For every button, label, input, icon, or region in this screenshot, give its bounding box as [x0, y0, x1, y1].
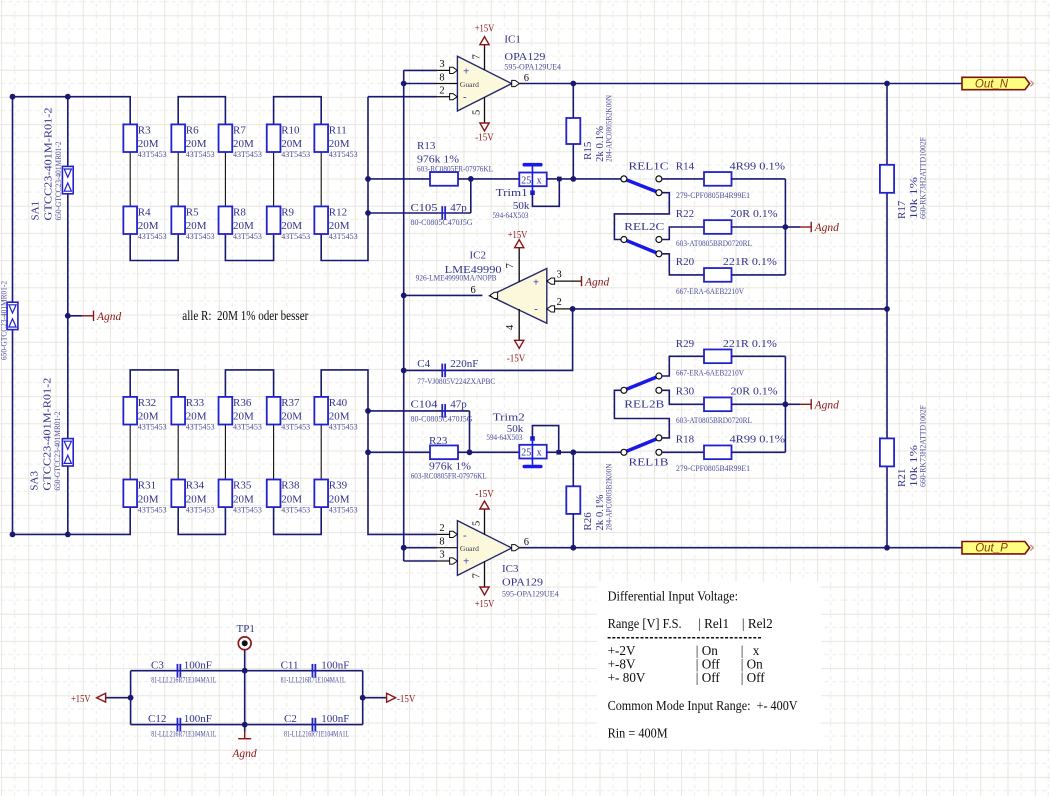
svg-text:Agnd: Agnd [814, 222, 840, 234]
svg-text:R6: R6 [186, 124, 199, 136]
svg-text:3: 3 [439, 59, 444, 70]
svg-text:Agnd: Agnd [584, 276, 610, 288]
svg-text:-: - [463, 530, 467, 542]
svg-text:603-AT0805BRD0720RL: 603-AT0805BRD0720RL [676, 239, 752, 248]
svg-text:GTCC23-401M-R01-2: GTCC23-401M-R01-2 [43, 108, 55, 221]
svg-text:+: + [533, 277, 539, 289]
svg-text:43T5453: 43T5453 [281, 505, 310, 514]
svg-text:C105: C105 [411, 202, 439, 214]
svg-text:R5: R5 [186, 206, 199, 218]
svg-text:81-LLL216R71E104MA1L: 81-LLL216R71E104MA1L [284, 730, 349, 739]
svg-text:IC3: IC3 [502, 563, 519, 575]
svg-text:R13: R13 [417, 140, 436, 152]
svg-text:20M: 20M [281, 493, 302, 505]
svg-text:603-RC0805FR-07976KL: 603-RC0805FR-07976KL [417, 165, 493, 174]
svg-text:43T5453: 43T5453 [186, 232, 215, 241]
svg-text:20M: 20M [233, 138, 254, 150]
svg-text:43T5453: 43T5453 [186, 150, 215, 159]
svg-text:R23: R23 [429, 435, 448, 447]
svg-text:C104: C104 [411, 399, 439, 411]
svg-text:81-LLL216R71E104MA1L: 81-LLL216R71E104MA1L [151, 676, 216, 685]
svg-text:R20: R20 [676, 256, 695, 268]
svg-text:595-OPA129UE4: 595-OPA129UE4 [502, 590, 559, 599]
svg-text:+15V: +15V [508, 229, 528, 241]
svg-text:C3: C3 [151, 659, 164, 671]
svg-text:25: 25 [521, 448, 531, 459]
svg-text:660-RK73H2ATTD1002F: 660-RK73H2ATTD1002F [919, 136, 928, 219]
svg-text:SA1: SA1 [30, 201, 42, 221]
svg-text:3: 3 [557, 269, 562, 280]
svg-text:GTCC23-401M-R01-2: GTCC23-401M-R01-2 [42, 378, 54, 491]
svg-text:43T5453: 43T5453 [329, 150, 358, 159]
svg-text:R4: R4 [138, 206, 151, 218]
svg-text:4R99 0.1%: 4R99 0.1% [730, 161, 786, 173]
svg-text:20R 0.1%: 20R 0.1% [731, 386, 778, 398]
svg-text:43T5453: 43T5453 [233, 232, 262, 241]
svg-text:20M: 20M [138, 493, 159, 505]
svg-text:x: x [537, 448, 542, 459]
svg-text:Agnd: Agnd [231, 748, 257, 760]
svg-text:43T5453: 43T5453 [329, 505, 358, 514]
svg-text:43T5453: 43T5453 [138, 232, 167, 241]
svg-text:R11: R11 [329, 124, 347, 136]
svg-text:REL1C: REL1C [629, 161, 669, 173]
svg-text:3: 3 [439, 550, 444, 561]
svg-text:221R 0.1%: 221R 0.1% [723, 256, 777, 268]
svg-text:R33: R33 [186, 397, 205, 409]
svg-text:Range [V] F.S.: Range [V] F.S. [608, 616, 682, 631]
svg-text:43T5453: 43T5453 [233, 150, 262, 159]
svg-text:-15V: -15V [397, 693, 416, 705]
svg-text:20M: 20M [233, 493, 254, 505]
svg-text:43T5453: 43T5453 [186, 505, 215, 514]
svg-text:594-64X503: 594-64X503 [493, 211, 529, 220]
svg-text:43T5453: 43T5453 [138, 150, 167, 159]
svg-text:20M: 20M [138, 138, 159, 150]
svg-text:43T5453: 43T5453 [186, 423, 215, 432]
svg-text:R15: R15 [582, 141, 594, 160]
svg-text:284-APC0805B2K00N: 284-APC0805B2K00N [605, 463, 614, 530]
svg-text:2: 2 [439, 86, 444, 97]
svg-text:7: 7 [505, 263, 516, 268]
svg-text:-: - [463, 91, 467, 103]
svg-text:R37: R37 [281, 397, 300, 409]
svg-text:6: 6 [524, 73, 529, 84]
svg-text:100nF: 100nF [321, 659, 349, 671]
svg-text:R14: R14 [676, 161, 695, 173]
svg-text:SA3: SA3 [29, 471, 41, 491]
svg-text:43T5453: 43T5453 [329, 423, 358, 432]
svg-text:279-CPF0805B4R99E1: 279-CPF0805B4R99E1 [676, 464, 750, 473]
svg-text:20M: 20M [186, 220, 207, 232]
svg-text:R7: R7 [233, 124, 246, 136]
svg-text:Out_N: Out_N [975, 79, 1009, 91]
svg-text:20M: 20M [281, 220, 302, 232]
svg-text:5: 5 [472, 521, 483, 526]
svg-text:6: 6 [524, 537, 529, 548]
svg-text:20M: 20M [138, 411, 159, 423]
svg-text:Agnd: Agnd [814, 400, 840, 412]
svg-text:+- 80V: +- 80V [608, 670, 646, 685]
svg-text:4R99 0.1%: 4R99 0.1% [730, 434, 786, 446]
svg-text:IC2: IC2 [470, 250, 487, 262]
svg-text:+15V: +15V [71, 693, 91, 705]
svg-text:C12: C12 [148, 713, 166, 725]
svg-text:Agnd: Agnd [96, 311, 122, 323]
svg-text:R32: R32 [138, 397, 156, 409]
svg-text:R31: R31 [138, 479, 156, 491]
svg-text:C2: C2 [284, 713, 297, 725]
svg-text:43T5453: 43T5453 [281, 150, 310, 159]
svg-text:R9: R9 [281, 206, 294, 218]
svg-text:43T5453: 43T5453 [138, 423, 167, 432]
svg-text:Guard: Guard [460, 80, 479, 89]
svg-text:81-LLL216R71E104MA1L: 81-LLL216R71E104MA1L [151, 730, 216, 739]
svg-text:R34: R34 [186, 479, 205, 491]
svg-text:81-LLL216R71E104MA1L: 81-LLL216R71E104MA1L [281, 676, 346, 685]
svg-text:TP1: TP1 [237, 623, 255, 635]
svg-text:R30: R30 [676, 386, 695, 398]
svg-text:20M: 20M [281, 411, 302, 423]
svg-text:220nF: 220nF [450, 358, 478, 370]
svg-text:20M: 20M [329, 220, 350, 232]
svg-text:R29: R29 [676, 338, 695, 350]
svg-text:594-64X503: 594-64X503 [486, 433, 522, 442]
svg-text:77-VJ0805V224ZXAPBC: 77-VJ0805V224ZXAPBC [417, 377, 495, 386]
svg-text:667-ERA-6AEB2210V: 667-ERA-6AEB2210V [676, 368, 744, 377]
svg-text:20M: 20M [329, 493, 350, 505]
svg-text:R21: R21 [896, 469, 908, 487]
svg-text:100nF: 100nF [184, 659, 212, 671]
svg-text:221R 0.1%: 221R 0.1% [723, 338, 777, 350]
svg-text:x: x [537, 175, 542, 186]
svg-text:alle R: 20M 1% oder besser: alle R: 20M 1% oder besser [182, 308, 309, 323]
svg-text:R36: R36 [233, 397, 252, 409]
svg-text:R39: R39 [329, 479, 348, 491]
svg-text:+: + [463, 66, 469, 78]
svg-text:7: 7 [472, 54, 483, 59]
svg-text:43T5453: 43T5453 [281, 423, 310, 432]
svg-text:43T5453: 43T5453 [233, 505, 262, 514]
svg-text:20M: 20M [329, 138, 350, 150]
svg-text:Common Mode Input Range: +- 4: Common Mode Input Range: +- 400V [608, 698, 798, 713]
svg-text:2: 2 [557, 297, 562, 308]
svg-text:20M: 20M [233, 220, 254, 232]
svg-text:R17: R17 [896, 200, 908, 219]
svg-text:25: 25 [521, 175, 531, 186]
svg-text:667-ERA-6AEB2210V: 667-ERA-6AEB2210V [676, 287, 744, 296]
svg-text:20M: 20M [186, 411, 207, 423]
svg-text:20M: 20M [186, 493, 207, 505]
svg-text:650-GTCC23-401MR01-2: 650-GTCC23-401MR01-2 [54, 142, 63, 221]
svg-text:8: 8 [439, 72, 444, 83]
svg-text:R18: R18 [676, 434, 695, 446]
svg-text:80-C0805C470J5G: 80-C0805C470J5G [411, 415, 473, 424]
svg-text:+15V: +15V [475, 598, 495, 610]
svg-text:OPA129: OPA129 [502, 577, 544, 589]
svg-text:+15V: +15V [475, 23, 495, 35]
svg-text:| Rel1: | Rel1 [698, 616, 729, 631]
svg-text:R22: R22 [676, 208, 694, 220]
svg-text:660-RK73H2ATTD1002F: 660-RK73H2ATTD1002F [919, 404, 928, 487]
svg-text:C11: C11 [281, 659, 299, 671]
svg-text:-15V: -15V [475, 488, 494, 500]
svg-text:20M: 20M [186, 138, 207, 150]
svg-text:| Off: | Off [696, 670, 721, 685]
svg-text:R35: R35 [233, 479, 252, 491]
svg-text:5: 5 [472, 110, 483, 115]
svg-text:Rin = 400M: Rin = 400M [608, 726, 668, 741]
svg-text:| Off: | Off [741, 670, 766, 685]
svg-text:R8: R8 [233, 206, 246, 218]
svg-text:603-AT0805BRD0720RL: 603-AT0805BRD0720RL [676, 416, 752, 425]
svg-text:Guard: Guard [460, 544, 479, 553]
svg-text:-: - [534, 303, 538, 315]
svg-text:Differential Input Voltage:: Differential Input Voltage: [608, 589, 739, 604]
svg-text:C4: C4 [417, 358, 430, 370]
svg-text:IC1: IC1 [504, 34, 521, 46]
svg-text:43T5453: 43T5453 [138, 505, 167, 514]
svg-text:R26: R26 [582, 512, 594, 531]
svg-text:284-APC0805B2K00N: 284-APC0805B2K00N [605, 95, 614, 162]
svg-text:7: 7 [472, 573, 483, 578]
svg-text:43T5453: 43T5453 [329, 232, 358, 241]
svg-text:650-GTCC23-401MR01-2: 650-GTCC23-401MR01-2 [53, 412, 62, 491]
svg-text:+: + [463, 556, 469, 568]
svg-text:R3: R3 [138, 124, 151, 136]
svg-text:-15V: -15V [475, 132, 494, 144]
svg-text:20M: 20M [281, 138, 302, 150]
svg-text:47p: 47p [450, 202, 467, 214]
svg-text:20M: 20M [233, 411, 254, 423]
svg-text:2: 2 [439, 523, 444, 534]
svg-text:REL1B: REL1B [629, 456, 669, 468]
svg-text:595-OPA129UE4: 595-OPA129UE4 [504, 62, 561, 71]
svg-text:20M: 20M [138, 220, 159, 232]
svg-text:20R 0.1%: 20R 0.1% [731, 208, 778, 220]
svg-text:47p: 47p [450, 399, 467, 411]
svg-text:REL2B: REL2B [624, 398, 664, 410]
svg-text:603-RC0805FR-07976KL: 603-RC0805FR-07976KL [411, 471, 487, 480]
svg-text:100nF: 100nF [321, 713, 349, 725]
svg-text:-15V: -15V [507, 353, 526, 365]
svg-text:R10: R10 [281, 124, 300, 136]
svg-text:R38: R38 [281, 479, 300, 491]
svg-text:279-CPF0805B4R99E1: 279-CPF0805B4R99E1 [676, 191, 750, 200]
svg-text:Trim2: Trim2 [493, 411, 525, 423]
svg-text:OPA129: OPA129 [504, 51, 546, 63]
svg-text:650-GTCC23-401MR01-2: 650-GTCC23-401MR01-2 [0, 281, 9, 360]
svg-text:4: 4 [505, 324, 516, 330]
svg-text:926-LME49990MA/NOPB: 926-LME49990MA/NOPB [416, 273, 497, 282]
svg-text:43T5453: 43T5453 [281, 232, 310, 241]
svg-text:6: 6 [470, 285, 475, 296]
svg-text:| Rel2: | Rel2 [742, 616, 773, 631]
svg-text:R40: R40 [329, 397, 348, 409]
svg-text:8: 8 [439, 536, 444, 547]
svg-text:20M: 20M [329, 411, 350, 423]
svg-text:Trim1: Trim1 [496, 187, 528, 199]
svg-text:Out_P: Out_P [975, 543, 1008, 555]
svg-text:R12: R12 [329, 206, 347, 218]
svg-text:43T5453: 43T5453 [233, 423, 262, 432]
svg-text:80-C0805C470J5G: 80-C0805C470J5G [411, 218, 473, 227]
svg-text:REL2C: REL2C [624, 221, 664, 233]
svg-text:100nF: 100nF [184, 713, 212, 725]
